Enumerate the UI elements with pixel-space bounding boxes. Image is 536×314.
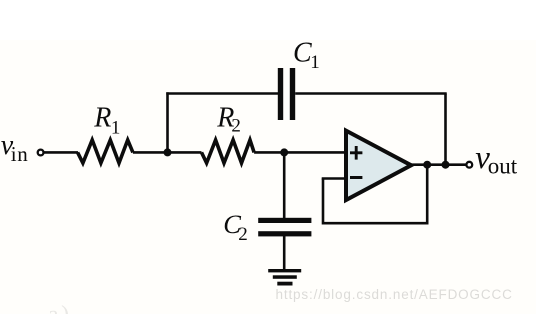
wire right vertical down to output <box>444 94 447 165</box>
capacitor C2 <box>258 218 311 223</box>
input terminal v_in (open circle) <box>38 150 44 156</box>
svg-text:2: 2 <box>231 115 241 136</box>
svg-text:1: 1 <box>310 52 320 73</box>
output terminal v_out (open circle) <box>466 162 472 168</box>
wire node A to R2 <box>168 151 202 154</box>
capacitor C1 <box>278 68 283 120</box>
wire input to R1 <box>44 151 78 154</box>
node B junction dot <box>280 148 288 156</box>
node A junction dot <box>164 148 172 156</box>
svg-text:https://blog.csdn.net/AEFDOGCC: https://blog.csdn.net/AEFDOGCCC <box>276 287 513 302</box>
svg-text:1: 1 <box>111 117 121 138</box>
wire - input stub <box>322 177 345 180</box>
wire top rail right (C1 to right corner) <box>295 92 447 95</box>
svg-text:R: R <box>93 103 111 134</box>
svg-text:in: in <box>11 142 29 166</box>
feedback wire (left down, bottom, right up) <box>323 165 427 224</box>
wire top rail left (to C1 left plate) <box>166 92 278 95</box>
resistor R1 <box>78 140 133 163</box>
svg-text:out: out <box>488 154 518 179</box>
wire R1 to node A <box>133 151 170 154</box>
op-amp U1 triangle <box>346 131 411 200</box>
resistor R2 <box>202 140 255 163</box>
node D feedback tap dot <box>423 161 431 169</box>
wire C2 to ground <box>283 236 286 270</box>
ground symbol <box>268 269 301 272</box>
op-amp - sign <box>350 176 362 179</box>
wire R2 to node B and to op-amp + input <box>254 151 345 154</box>
svg-text:a): a) <box>48 302 72 314</box>
wire node A up to top rail <box>166 92 169 154</box>
node C dot (C1 rail tap) <box>442 161 450 169</box>
wire node B down to C2 <box>283 152 286 218</box>
svg-text:C: C <box>293 38 312 69</box>
output wire <box>409 163 466 166</box>
op-amp + sign <box>350 151 362 154</box>
svg-text:2: 2 <box>238 224 248 245</box>
